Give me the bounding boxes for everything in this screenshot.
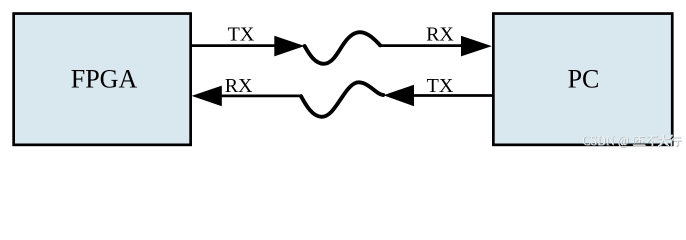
arrowhead right into PC (top): [461, 36, 492, 57]
wire TX from FPGA: [191, 44, 276, 47]
squiggle noise (top): [305, 32, 381, 64]
svg-text:PC: PC: [568, 64, 600, 93]
glyph 还 shadow: [634, 137, 646, 145]
glyph 太 shadow: [659, 135, 669, 146]
watermark CJK glyphs light layer (还不太行): [633, 135, 681, 146]
svg-text:CSDN @: CSDN @: [582, 133, 629, 148]
watermark CJK glyphs shadow layer (还不太行): [634, 135, 682, 146]
glyph 不 shadow: [648, 137, 658, 146]
svg-text:RX: RX: [426, 23, 454, 45]
wire RX to FPGA (bottom): [220, 95, 302, 98]
svg-text:FPGA: FPGA: [71, 64, 138, 93]
block PC: [493, 14, 672, 145]
svg-text:RX: RX: [225, 75, 253, 97]
svg-text:TX: TX: [427, 75, 454, 97]
arrowhead right (top, before squiggle): [274, 36, 304, 57]
glyph 太: [658, 135, 668, 146]
glyph 行 shadow: [670, 135, 681, 146]
glyph 还: [633, 137, 645, 145]
glyph 行: [670, 135, 681, 146]
glyph 不: [647, 136, 657, 145]
arrowhead left into FPGA (bottom): [192, 86, 222, 107]
wire RX to PC (top): [379, 44, 464, 47]
arrowhead left (bottom, after squiggle): [383, 85, 414, 106]
wire TX from PC (bottom): [412, 94, 493, 97]
block FPGA: [14, 14, 191, 145]
svg-text:TX: TX: [228, 23, 255, 45]
squiggle noise (bottom): [301, 82, 383, 117]
